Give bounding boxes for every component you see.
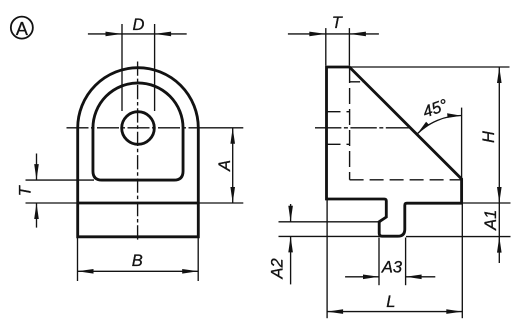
svg-text:A1: A1 xyxy=(482,210,500,231)
svg-text:D: D xyxy=(132,16,144,34)
front view step edge xyxy=(78,202,199,205)
svg-text:A: A xyxy=(216,160,234,172)
hidden line foot top xyxy=(350,179,462,181)
svg-text:B: B xyxy=(132,252,143,270)
dimension 45 degrees xyxy=(417,96,462,179)
hole xyxy=(122,112,155,145)
dimension T front xyxy=(16,154,94,228)
hidden line hole bottom xyxy=(327,143,350,145)
front view outer contour xyxy=(78,68,199,237)
front vertical centerline xyxy=(137,62,139,242)
front horizontal centerline xyxy=(67,127,199,129)
view label circle A xyxy=(11,17,33,39)
hidden line hole top xyxy=(327,111,350,113)
dimension T side xyxy=(288,14,379,65)
dimension A1 xyxy=(406,203,511,263)
svg-text:A2: A2 xyxy=(268,258,286,279)
dimension A2 xyxy=(268,204,381,284)
dimension B xyxy=(78,238,199,281)
svg-text:L: L xyxy=(386,293,395,311)
dimension A xyxy=(198,128,243,203)
side horizontal centerline xyxy=(315,127,411,129)
dimension A3 xyxy=(345,238,435,286)
front view inner contour xyxy=(93,83,183,180)
dimension H xyxy=(350,67,511,203)
svg-text:H: H xyxy=(480,131,498,143)
side view profile xyxy=(327,67,462,236)
hidden line inner arch top xyxy=(350,81,365,83)
hidden line wall inner edge xyxy=(349,67,351,180)
dimension D xyxy=(88,16,187,111)
svg-text:A3: A3 xyxy=(381,258,403,276)
svg-text:A: A xyxy=(16,19,28,39)
dimension L xyxy=(327,200,462,318)
